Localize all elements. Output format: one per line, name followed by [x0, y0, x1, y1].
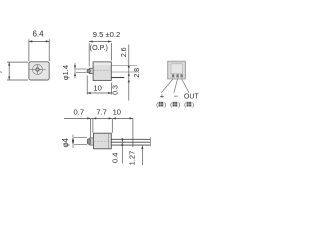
- svg-text:φ4: φ4: [61, 137, 70, 147]
- svg-text:2.6: 2.6: [121, 47, 128, 57]
- svg-text:2.8: 2.8: [134, 68, 141, 78]
- svg-text:φ1.4: φ1.4: [61, 65, 70, 80]
- svg-text:): ): [192, 102, 194, 108]
- svg-text:0.4: 0.4: [111, 153, 120, 163]
- svg-text:(: (: [184, 102, 186, 108]
- svg-text:7: 7: [0, 70, 4, 74]
- svg-text:OUT: OUT: [184, 94, 200, 101]
- svg-text:0.3: 0.3: [113, 85, 120, 95]
- svg-text:6.4: 6.4: [32, 30, 44, 39]
- svg-text:+: +: [160, 92, 165, 101]
- svg-text:1.27: 1.27: [128, 151, 137, 166]
- svg-text:−: −: [174, 92, 179, 101]
- svg-text:10: 10: [93, 83, 101, 92]
- svg-text:): ): [164, 102, 166, 108]
- svg-text:(: (: [156, 102, 158, 108]
- svg-text:): ): [178, 102, 180, 108]
- svg-text:7.7: 7.7: [96, 108, 107, 117]
- svg-text:(O.P.): (O.P.): [90, 43, 108, 52]
- svg-text:9.5 ±0.2: 9.5 ±0.2: [93, 30, 120, 39]
- svg-text:(: (: [170, 102, 172, 108]
- svg-text:0.7: 0.7: [74, 108, 85, 117]
- svg-text:10: 10: [113, 108, 121, 117]
